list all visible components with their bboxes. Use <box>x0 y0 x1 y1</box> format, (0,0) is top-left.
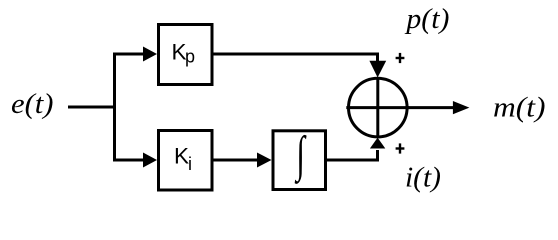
svg-text:∫: ∫ <box>294 127 307 184</box>
svg-text:i(t): i(t) <box>405 163 441 194</box>
plus sign top input <box>396 53 405 63</box>
plus sign bottom input <box>396 143 405 153</box>
arrowhead into summing junction top <box>369 61 386 78</box>
summing junction cross vertical <box>376 77 379 138</box>
arrowhead output <box>453 101 470 114</box>
wire branch vertical trunk <box>113 53 116 162</box>
arrowhead into Ki <box>143 153 157 168</box>
wire branch to Ki <box>113 159 144 162</box>
wire branch to Kp <box>113 53 144 56</box>
arrowhead into summing junction bottom <box>370 138 385 149</box>
summing junction cross horizontal <box>346 106 409 109</box>
summing junction U1 circle <box>349 78 408 137</box>
block integrator <box>273 131 326 190</box>
svg-text:m(t): m(t) <box>493 93 546 124</box>
wire integrator output to summing junction bottom <box>327 150 378 160</box>
block Kp (proportional gain) <box>159 25 213 85</box>
svg-text:p(t): p(t) <box>404 4 449 35</box>
svg-text:e(t): e(t) <box>11 89 54 120</box>
block Ki (integral gain) <box>159 131 213 191</box>
arrowhead into integrator <box>257 153 272 168</box>
wire Ki output to integrator <box>214 159 259 162</box>
arrowhead into Kp <box>143 47 157 62</box>
wire input from e(t) to branch node <box>68 106 116 109</box>
wire output from summing junction <box>407 106 454 109</box>
wire Kp output to summing junction top <box>214 54 378 64</box>
